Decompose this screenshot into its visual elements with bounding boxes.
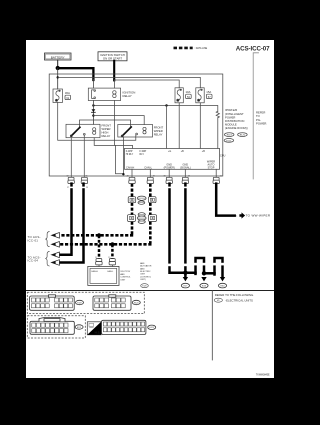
svg-text:RELAY: RELAY <box>123 94 132 98</box>
svg-text:29: 29 <box>86 187 88 189</box>
svg-text:MODULE: MODULE <box>225 123 237 127</box>
svg-text:UNIT): UNIT) <box>140 279 146 281</box>
arrow to ACS-ICC-01 (CAN-L) <box>51 242 59 248</box>
wire GND signal (thick) <box>184 184 187 278</box>
arrow to WW-wiper <box>239 212 245 218</box>
wire fuse 10A to cpu <box>178 103 180 149</box>
svg-text:+B: +B <box>202 150 205 153</box>
connector ABS CAN-H pin 11 <box>96 259 102 265</box>
wire ignition feed <box>113 61 115 81</box>
connector E119 <box>224 133 234 137</box>
relay front wiper high <box>66 124 111 139</box>
svg-text:VDC/TCS/: VDC/TCS/ <box>120 271 130 273</box>
svg-text:: DATA LINE: : DATA LINE <box>195 47 208 50</box>
node ground junction E17 <box>183 271 187 275</box>
connector 49 (CAN-L) <box>147 177 153 183</box>
svg-text:ACTUATOR: ACTUATOR <box>140 265 152 268</box>
svg-text:(ENGINE ROOM)): (ENGINE ROOM)) <box>225 126 248 130</box>
svg-text:RELAY: RELAY <box>154 133 163 137</box>
node bus cpu tap <box>165 104 167 106</box>
node bus relay output <box>92 104 94 106</box>
wire high relay pivot output <box>70 138 72 177</box>
svg-text:REFER: REFER <box>256 111 265 115</box>
svg-text:POWER: POWER <box>225 115 235 119</box>
fuse 15A <box>196 88 212 103</box>
svg-text:DISTRIBUTION: DISTRIBUTION <box>225 119 244 123</box>
wire fuse 15A to cpu <box>199 103 201 149</box>
svg-text:UNIT: UNIT <box>120 279 126 281</box>
svg-text:PG-: PG- <box>256 118 261 122</box>
node relay return junction <box>122 173 124 175</box>
wire battery to relay contact <box>92 79 94 88</box>
wire CAN-H horizontal to arrow <box>60 234 133 237</box>
ground E43 <box>200 283 208 288</box>
svg-text:HI RLY: HI RLY <box>126 153 134 156</box>
svg-text:CAN-H: CAN-H <box>126 166 134 170</box>
wire front wiper low output (thick) <box>60 184 84 263</box>
connector 27 (front wiper high) <box>68 177 74 183</box>
svg-text:+B: +B <box>181 150 184 153</box>
wire thick battery bus <box>58 68 94 80</box>
svg-text:ICC-04: ICC-04 <box>28 259 39 263</box>
connector 48 (CAN-H) <box>129 177 135 183</box>
svg-text:ABS: ABS <box>140 262 145 265</box>
wire cpu CAN-L pin <box>149 169 151 177</box>
ground arrow E17 <box>183 277 188 281</box>
svg-text:E125: E125 <box>142 286 146 288</box>
connector view E120 face <box>93 295 140 311</box>
svg-text:WIPER: WIPER <box>102 127 111 131</box>
svg-text:31: 31 <box>86 175 88 177</box>
connector 29 (front wiper low) <box>81 177 87 183</box>
fuse 30A <box>53 89 71 103</box>
diode D1 <box>92 109 96 112</box>
connector 41 (wiper auto stop) <box>213 177 219 183</box>
wire CAN-L horizontal to arrow <box>60 243 152 246</box>
wire wiper auto stop output (thick) <box>216 184 235 216</box>
node CAN-L branch <box>110 242 114 246</box>
wire cpu GND power pin <box>168 169 170 177</box>
svg-text:48: 48 <box>127 175 129 177</box>
label REFER TO PG-POWER <box>256 111 267 126</box>
wire relay return to junction <box>116 145 124 173</box>
wire resistor to cpu <box>217 118 219 149</box>
node battery junction <box>56 66 60 70</box>
connector view dashed box row 2 <box>27 316 85 338</box>
relay front wiper <box>118 125 164 138</box>
svg-text:CPU: CPU <box>220 154 226 158</box>
ground arrow E43 <box>201 277 206 281</box>
svg-text:TKWM0845E: TKWM0845E <box>256 374 270 376</box>
wire ground hook E43 <box>196 258 205 274</box>
arrow to ACS-ICC-01 (CAN-H) <box>51 233 59 239</box>
label TO ACS-ICC-01 <box>28 232 50 247</box>
svg-text:E119: E119 <box>227 135 233 137</box>
svg-text:TO: TO <box>256 114 260 118</box>
ground arrow E60 <box>220 277 225 281</box>
wire ground hook E60 <box>215 258 223 277</box>
node ignition tap <box>113 79 115 81</box>
wire ignition to relay coil <box>113 80 115 88</box>
svg-text:FRONT: FRONT <box>154 126 164 130</box>
connector 38 (GND power) <box>166 177 172 183</box>
wire battery stub <box>57 60 59 68</box>
arrow to ACS-ICC-04 (wiper high) <box>51 252 59 258</box>
divider rule <box>211 291 213 361</box>
svg-text:L: L <box>236 216 238 218</box>
separator rule <box>26 290 274 292</box>
svg-text:E120: E120 <box>134 302 138 304</box>
wire GND power (thick) <box>170 184 196 273</box>
svg-text:(INTELLIGENT: (INTELLIGENT <box>225 112 244 116</box>
svg-text:49: 49 <box>153 175 155 177</box>
svg-text:E121: E121 <box>226 140 232 142</box>
svg-text:27: 27 <box>67 187 69 189</box>
svg-text:15A: 15A <box>206 90 211 94</box>
wire high relay coil return <box>94 138 132 149</box>
node CAN-H branch <box>97 233 101 237</box>
ground E17 <box>181 283 189 288</box>
label ABS actuator and electric unit <box>140 262 152 288</box>
node battery internal tap <box>57 76 59 78</box>
svg-text:ACS-ICC-07: ACS-ICC-07 <box>236 45 270 52</box>
wire battery internal bus to fuse 15A <box>58 77 201 88</box>
wire crossing gaps <box>70 187 225 267</box>
icon H.S. <box>87 322 101 335</box>
svg-text:ELECTRIC: ELECTRIC <box>140 271 151 273</box>
svg-text:41: 41 <box>220 175 222 177</box>
svg-text:CONTROL: CONTROL <box>120 277 131 279</box>
battery <box>45 53 72 60</box>
svg-text:E119: E119 <box>77 302 81 304</box>
wire ABS connector stubs <box>98 265 100 267</box>
svg-text:STOP: STOP <box>208 167 215 170</box>
connector E121 <box>224 139 234 143</box>
connector 39 (GND signal) <box>182 177 188 183</box>
wire bus tap to cpu <box>166 106 168 149</box>
svg-text:AND: AND <box>140 267 145 270</box>
svg-text:ON OR START: ON OR START <box>103 56 122 60</box>
label TO ACS-ICC-04 <box>28 251 50 266</box>
svg-text:ABS: ABS <box>120 273 125 276</box>
IPDM E/R box <box>49 74 223 176</box>
connector ABS CAN-L pin 15 <box>109 259 115 265</box>
wire battery down to fuse 30A <box>57 68 59 89</box>
svg-text:CAN-L: CAN-L <box>144 166 152 170</box>
svg-text:15: 15 <box>108 257 110 259</box>
wire CAN-H data line <box>131 184 134 235</box>
svg-text:E120: E120 <box>240 135 246 137</box>
svg-text:UNIT: UNIT <box>140 274 146 276</box>
arrow to ACS-ICC-04 (wiper low) <box>51 260 59 266</box>
data line legend <box>174 47 208 50</box>
svg-text:H.S.: H.S. <box>95 331 101 335</box>
svg-text:+G: +G <box>168 150 171 153</box>
wire CAN-L data line <box>149 184 152 244</box>
svg-text:RLY: RLY <box>140 153 145 156</box>
wire ignition internal bus to fuse 10A <box>114 80 179 88</box>
fuse 10A <box>175 88 191 103</box>
wire cpu wiper auto stop pin <box>215 169 217 177</box>
title bracket <box>253 53 258 179</box>
wire ignition relay output <box>92 101 94 125</box>
svg-text:REFER TO THE FOLLOWING.: REFER TO THE FOLLOWING. <box>215 293 255 297</box>
svg-text:CAN-H: CAN-H <box>91 270 98 273</box>
svg-text:WIPER: WIPER <box>154 129 163 133</box>
wire cpu GND signal pin <box>184 169 186 177</box>
wire fuse 30A output to front relay contact <box>58 103 136 141</box>
svg-text:32: 32 <box>67 175 69 177</box>
svg-text:CAN-L: CAN-L <box>107 270 114 273</box>
svg-text:10A: 10A <box>186 90 191 94</box>
label refer to the following <box>214 293 254 303</box>
node diode output junction <box>92 114 94 116</box>
wire CAN-L branch to ABS <box>111 244 114 260</box>
CPU box <box>125 148 226 169</box>
connector view E125 face <box>102 320 156 334</box>
svg-text:BATTERY: BATTERY <box>51 56 65 60</box>
inline connector pair row 2 <box>128 213 157 224</box>
wire CAN-H branch to ABS <box>98 235 101 260</box>
inline connector pair row 1 <box>128 196 156 204</box>
ABS actuator control unit box <box>88 266 132 285</box>
svg-text:POWER.: POWER. <box>256 121 267 125</box>
wire ground link E43-E60 <box>204 272 215 275</box>
connector view dashed box row 1 <box>27 292 144 313</box>
svg-text:E121: E121 <box>77 327 81 329</box>
wire ignition relay coil return <box>113 101 115 146</box>
wire cpu CAN-H pin <box>131 169 133 177</box>
label IPDM E/R <box>225 108 248 130</box>
connector E120 <box>238 133 248 137</box>
relay ignition <box>88 88 135 100</box>
svg-text:M1: M1 <box>217 300 220 302</box>
svg-text:38: 38 <box>164 175 166 177</box>
ignition switch <box>98 52 127 61</box>
svg-text:39: 39 <box>188 175 190 177</box>
svg-text:E125: E125 <box>149 327 153 329</box>
svg-text:FRONT: FRONT <box>102 124 112 128</box>
svg-text:RELAY: RELAY <box>102 134 111 138</box>
svg-text:11: 11 <box>95 257 97 259</box>
pin numbers at connector row <box>67 175 222 189</box>
connector view E121 face <box>30 317 83 334</box>
wire coil feed branch <box>93 116 144 125</box>
svg-text:(CONTROL: (CONTROL <box>140 276 152 278</box>
wire contact feed rail <box>80 120 131 127</box>
wire high relay contact output <box>83 135 85 177</box>
resistor R1 <box>216 111 219 117</box>
svg-text:HIGH: HIGH <box>102 131 109 135</box>
svg-text:-ELECTRICAL UNITS: -ELECTRICAL UNITS <box>225 298 253 302</box>
svg-text:30A: 30A <box>65 91 70 95</box>
svg-text:TO WW-WIPER: TO WW-WIPER <box>246 214 271 218</box>
connector view E119 face <box>30 295 84 311</box>
svg-text:IPDM E/R: IPDM E/R <box>225 108 237 112</box>
wire main internal bus with resistor corner <box>93 106 217 112</box>
node ground junction E43 <box>202 271 206 275</box>
svg-text:ICC-01: ICC-01 <box>28 238 39 242</box>
ground E60 <box>218 283 226 288</box>
wire front relay pivot output <box>122 137 124 174</box>
wire front wiper high output (thick) <box>60 184 72 255</box>
